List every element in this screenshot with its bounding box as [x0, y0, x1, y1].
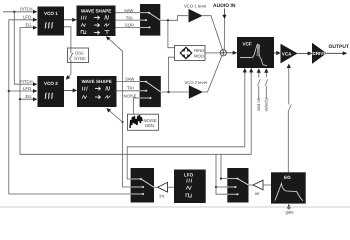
wire mixer to VCF: [226, 52, 236, 54]
svg-text:WAVE SHAPE: WAVE SHAPE: [82, 79, 112, 84]
LFO block: [174, 170, 206, 204]
wire SAW out 1: [116, 12, 141, 14]
svg-text:LFO: LFO: [184, 173, 194, 178]
switch wave select 2: [140, 76, 161, 107]
amp LFO int: [154, 182, 174, 198]
amp VCO 2 level: [185, 80, 207, 99]
wire pitch rail to VCO1: [3, 11, 37, 13]
switch wave select 1: [140, 4, 160, 36]
osc sync switch box: [68, 48, 89, 63]
row 1 saw: [82, 87, 87, 91]
svg-text:DRIVE: DRIVE: [312, 51, 326, 56]
svg-text:VCO 1 level: VCO 1 level: [184, 4, 206, 9]
wire TRI out 1: [116, 19, 141, 21]
svg-text:EG: EG: [26, 22, 32, 27]
wire VCO2 to WAVE SHAPE 2: [64, 89, 77, 91]
wire audio in: [224, 9, 226, 19]
svg-text:PITCH: PITCH: [20, 7, 33, 12]
svg-text:LFO: LFO: [23, 86, 32, 91]
amp VCA: [281, 44, 298, 64]
wire VCO1 to WAVE SHAPE 1: [64, 19, 76, 21]
VCO 2 block: [38, 76, 65, 107]
svg-text:OUTPUT: OUTPUT: [329, 44, 350, 50]
svg-text:GEN: GEN: [145, 123, 154, 128]
svg-text:SQR: SQR: [125, 23, 134, 28]
svg-text:TRI: TRI: [127, 86, 134, 91]
row 1 saw: [81, 16, 86, 20]
wire LFO cutoff route to VCF: [127, 69, 245, 179]
node mixer: [220, 50, 226, 56]
svg-text:AUDIO IN: AUDIO IN: [213, 3, 236, 9]
wire switch1 out to VCO1 level: [160, 16, 188, 21]
wire VCO2 level to mixer: [203, 56, 222, 92]
svg-text:TRI: TRI: [126, 15, 133, 20]
wire ring mod to mixer: [205, 52, 220, 54]
VCF mod input kbd trk (switched): [256, 69, 261, 111]
WAVE SHAPE 2 block: [77, 76, 117, 107]
node ring mod tap 2: [167, 91, 169, 93]
node LFO-VCO2 junction: [8, 90, 10, 92]
VCF block: [237, 37, 274, 68]
row 2 tri: [82, 96, 87, 99]
svg-text:SAW: SAW: [124, 8, 133, 13]
node EG-VCO2 junction: [19, 98, 21, 100]
wire switch2 out to VCO2 level: [161, 91, 189, 93]
wire SQR out 1: [116, 26, 141, 28]
amp VCO 1 level: [184, 4, 206, 23]
svg-text:VCF: VCF: [243, 42, 252, 47]
wire shape route branch to WS2: [121, 121, 123, 123]
wire EG switch mid/bottom riser: [216, 154, 227, 194]
wire to ring mod in 2: [169, 57, 175, 92]
wire VCO1 level to mixer: [203, 16, 223, 50]
amp DRIVE: [312, 43, 327, 64]
svg-text:kbd trk: kbd trk: [256, 97, 261, 110]
wire SAW out 2: [117, 81, 140, 83]
svg-text:RING: RING: [194, 48, 204, 53]
svg-text:MOD: MOD: [194, 53, 204, 58]
node ring mod tap 1: [167, 19, 169, 21]
wire VCF to VCA: [274, 52, 280, 54]
wire EG to VCO2: [20, 98, 37, 100]
svg-text:EG: EG: [284, 175, 291, 180]
svg-text:VCO 2 level: VCO 2 level: [185, 80, 207, 85]
svg-text:VCO 2: VCO 2: [44, 81, 58, 86]
wire EG switch top stub riser: [221, 154, 227, 178]
WAVE SHAPE 1 block: [77, 6, 116, 37]
node pitch junction: [13, 11, 15, 13]
row 2 tri: [81, 24, 86, 27]
svg-text:VCA: VCA: [282, 51, 292, 56]
svg-text:SYNC: SYNC: [74, 56, 86, 61]
wire NOISE in: [134, 98, 140, 114]
row 3 square: [81, 31, 86, 34]
separator line: [0, 206, 350, 208]
EG block: [271, 172, 306, 203]
wire output: [327, 52, 347, 54]
svg-text:PITCH: PITCH: [20, 79, 33, 84]
svg-text:SAW: SAW: [125, 77, 134, 82]
VCO 1 block: [38, 7, 65, 36]
svg-text:gate: gate: [286, 210, 295, 215]
svg-text:OSC: OSC: [75, 51, 84, 56]
wire to ring mod in 1: [168, 20, 175, 47]
svg-text:EG: EG: [26, 94, 32, 99]
switch LFO target: [131, 168, 154, 203]
wire TRI out 2: [117, 90, 140, 92]
wire LFO to VCO2: [9, 90, 37, 92]
wire EG to VCA (switched): [287, 110, 289, 172]
switch EG target: [227, 168, 248, 203]
wire LFO shape route: [106, 37, 130, 187]
svg-text:VCO 1: VCO 1: [44, 11, 58, 16]
svg-text:LFO: LFO: [23, 15, 32, 20]
wire EG switch middle stub: [216, 186, 227, 188]
noise gen block: [128, 114, 159, 130]
ring mod block: [175, 46, 206, 61]
wire EG rail: [20, 28, 251, 155]
svg-text:WAVE SHAPE: WAVE SHAPE: [81, 8, 111, 13]
svg-text:NOISE: NOISE: [124, 93, 137, 98]
svg-text:int: int: [255, 191, 260, 196]
wire VCA to DRIVE: [298, 52, 312, 54]
VCF mod input velocity (switched): [264, 69, 269, 112]
svg-text:int: int: [160, 194, 165, 199]
svg-text:velocity: velocity: [264, 97, 269, 112]
wire pitch to VCO2: [14, 12, 36, 84]
wire osc sync tap: [64, 27, 71, 53]
amp EG int: [249, 180, 272, 196]
wire LFO rail: [9, 20, 131, 194]
